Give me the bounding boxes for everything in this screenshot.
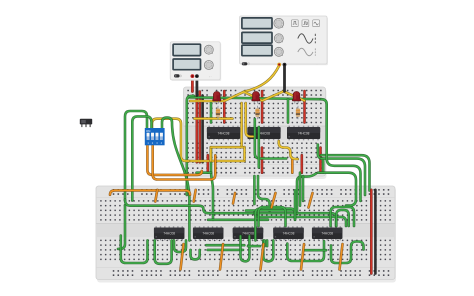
wire green col lower mid: [211, 148, 213, 220]
wire red LED1 column: [223, 91, 226, 123]
wire yellow lower right vert: [243, 147, 246, 160]
IC U5 74HC08 lower: [193, 226, 224, 240]
resistor R1: [216, 106, 220, 120]
resistor R2: [255, 106, 259, 120]
wire green wrap bottom rail: [318, 173, 356, 206]
wire green gap drop pair 2: [258, 176, 270, 211]
wire green IC5 arcs 1: [331, 207, 354, 226]
wire orange jumper top rail: [309, 193, 313, 208]
wire green wrap row j: [321, 159, 365, 195]
wire orange jumper top rail: [155, 190, 157, 202]
wire green under U IC5 right: [331, 242, 364, 264]
wire green tall arc DIP pin2: [132, 116, 151, 200]
wire green lower row e run: [208, 219, 268, 222]
IC U1 74HC08: [207, 126, 240, 141]
wire yellow row c run: [195, 117, 233, 120]
wire orange DIP pin1 to rail: [147, 146, 201, 175]
breadboard lower: [96, 186, 396, 283]
wire green lower-left big U: [121, 236, 148, 264]
wire yellow right Z: [279, 141, 298, 159]
wire orange jumper bottom rail: [220, 244, 223, 270]
wire red long right: [370, 190, 373, 274]
wire black rail jumper left: [201, 96, 204, 163]
wire green DIP right slant into lower board: [162, 118, 189, 241]
wire green gap drop right 2: [299, 173, 302, 206]
IC U6 74HC08 lower: [233, 226, 264, 240]
svg-text:ON: ON: [146, 129, 150, 133]
slide switch S2: [80, 119, 92, 127]
wire red LED3 column: [303, 91, 306, 123]
svg-text:74HC08: 74HC08: [283, 232, 295, 236]
wire green tall arc DIP pin1: [125, 111, 147, 201]
IC U7 74HC08 lower: [273, 226, 304, 240]
DIP switch S1: [145, 128, 165, 145]
wire green col LED3 upper: [287, 99, 290, 123]
wire green lower row d run mid: [254, 212, 346, 226]
IC U8 74HC08 lower: [312, 226, 343, 240]
wire green wrap row i: [321, 155, 370, 190]
wire green IC1-IC2 link U: [174, 240, 186, 252]
wire green IC2 below straight: [257, 127, 260, 168]
wire orange jumper bottom rail: [181, 244, 184, 270]
wire red bottom jumper a: [207, 155, 210, 173]
svg-text:74HC08: 74HC08: [163, 232, 175, 236]
wire green col LED1 upper: [210, 102, 213, 123]
wire black from power supply: [195, 77, 198, 96]
IC U3 74HC08: [287, 126, 320, 141]
wire yellow vertical gap 1: [240, 103, 243, 147]
wire green under small U 1: [191, 250, 200, 260]
wire green gap drop right 1 corner: [297, 174, 316, 215]
wire red rail jumper left 1: [196, 92, 199, 163]
wire green row g short link: [248, 245, 260, 248]
wire green outside-left tall: [187, 96, 194, 195]
wire yellow from DIP switch: [152, 119, 189, 161]
wire red from power supply: [191, 77, 194, 92]
wire green lower row c short: [246, 209, 295, 212]
wire black long right: [374, 190, 377, 274]
wire red bottom jumper b: [261, 148, 264, 173]
wire green nested arc A2: [255, 209, 295, 241]
LED D1: [213, 91, 221, 103]
wire orange jumper bottom rail: [301, 244, 304, 270]
wire red rail jumper left 2: [199, 92, 202, 163]
wire green lower row b run + mid continuation: [125, 200, 336, 227]
wire green gap drop right 3: [302, 176, 305, 201]
LED D2: [252, 91, 260, 103]
wire green mid vertical: [294, 190, 297, 219]
svg-text:74HC08: 74HC08: [218, 131, 230, 135]
function generator: [240, 16, 329, 67]
LED D3: [292, 91, 300, 103]
wire yellow zigzag top: [190, 91, 305, 101]
wire orange jumper top rail: [233, 193, 235, 204]
wire red bottom jumper d: [300, 155, 303, 173]
wire green rows g h runs: [206, 244, 244, 247]
power supply unit: [170, 42, 221, 81]
wire green IC3 below elbow: [318, 145, 323, 173]
wire orange DIP pin2 up into board: [153, 146, 216, 180]
wire green IC3 pin stubs: [265, 240, 268, 246]
wire green lower-left continuation: [118, 205, 125, 249]
wire yellow lower long run: [186, 160, 245, 163]
wire green top long run: [188, 97, 321, 99]
wire yellow from function generator: [244, 66, 279, 92]
wire red bottom jumper c: [319, 148, 322, 173]
wire green wrap row a via right column: [321, 99, 361, 201]
wire green nested arc A3: [259, 207, 286, 226]
IC U4 74HC08 lower: [154, 226, 185, 240]
wire orange jumper bottom rail: [261, 244, 264, 270]
svg-text:+ -: + -: [209, 76, 212, 79]
svg-text:74HC08: 74HC08: [298, 131, 310, 135]
wire green IC1 under U: [155, 240, 172, 263]
wire green under wide U IC4-IC5: [287, 241, 324, 261]
wire orange jumper bottom rail: [340, 244, 343, 270]
wire green gap drop pair 1: [253, 176, 256, 204]
wire green row h run right: [305, 249, 326, 252]
wire yellow lower top run: [211, 146, 243, 149]
wire green under U IC3 left: [241, 236, 250, 261]
wire black from function generator: [283, 65, 286, 92]
resistor R3: [296, 106, 300, 120]
wire yellow vertical gap 2: [246, 103, 253, 137]
wire green row h run: [208, 249, 243, 252]
wire yellow lower left vert: [210, 147, 213, 161]
wire green bottom rail left: [197, 171, 212, 174]
wire orange bottom jumper: [291, 159, 294, 173]
wire red LED2 column: [261, 91, 264, 123]
svg-text:74HC08: 74HC08: [321, 232, 333, 236]
breadboard upper: [184, 87, 327, 179]
wire green under U IC3 right: [263, 240, 273, 261]
wire green IC5 arcs 2: [336, 210, 348, 226]
IC U2 74HC08: [247, 126, 280, 141]
svg-text:74HC08: 74HC08: [242, 232, 254, 236]
wire orange jumper top rail: [272, 193, 276, 208]
wire orange jumper top rail: [194, 190, 196, 202]
wire orange lower rail arc: [110, 190, 190, 194]
wire green IC2 below elbow: [255, 119, 286, 159]
svg-text:74HC08: 74HC08: [202, 232, 214, 236]
